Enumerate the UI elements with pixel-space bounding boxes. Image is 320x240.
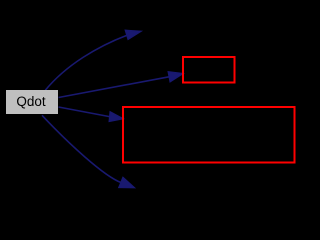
node box: large red rectangle [123, 107, 295, 163]
arrowhead: bottom edge [119, 177, 135, 188]
node Qdot (current node, grey filled) [6, 90, 58, 114]
wire: edge Qdot -> small red node [59, 77, 170, 98]
wire: edge Qdot -> top node (curved) [45, 35, 127, 90]
svg-text:Qdot: Qdot [16, 94, 46, 109]
arrowhead: top edge [125, 30, 141, 39]
arrowhead: large red node edge [109, 112, 124, 122]
arrowhead: small red node edge [168, 72, 184, 82]
node box: small red rectangle [183, 57, 235, 83]
wire: edge Qdot -> bottom node (curved) [42, 115, 121, 182]
wire: edge Qdot -> large red node [59, 107, 110, 117]
